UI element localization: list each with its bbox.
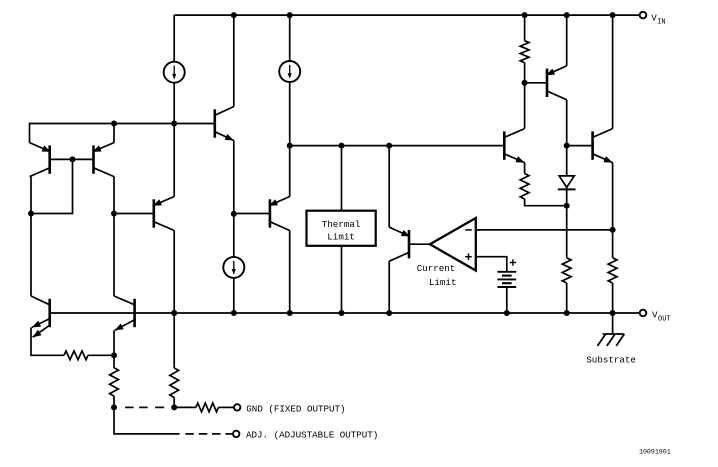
junction	[564, 203, 570, 209]
junction	[610, 12, 616, 18]
wire	[113, 396, 115, 407]
svg-text:Limit: Limit	[429, 277, 457, 288]
substrate symbol	[598, 334, 625, 346]
wire Q4 emitter	[173, 124, 175, 197]
wire Q4 collector	[173, 231, 175, 314]
wire dashed node	[125, 406, 164, 408]
battery reference V1	[497, 259, 516, 287]
wire	[341, 146, 343, 211]
junction	[564, 310, 570, 316]
thermal limit block	[307, 211, 376, 246]
transistor Q3 (PNP)	[92, 143, 114, 177]
wire	[524, 15, 526, 41]
transistor Q2 (PNP)	[30, 143, 51, 177]
wire	[173, 15, 175, 62]
junction	[610, 310, 616, 316]
wire Q8 emitter	[388, 146, 390, 228]
wire Q9 base	[525, 82, 547, 84]
transistor Q5 (PNP)	[269, 197, 290, 231]
junction	[171, 310, 177, 316]
svg-text:Current: Current	[417, 263, 456, 274]
wire	[566, 187, 568, 257]
terminal VIN	[640, 12, 647, 19]
junction	[504, 310, 510, 316]
wire	[612, 313, 614, 334]
terminal GND	[234, 404, 240, 410]
svg-text:10091901: 10091901	[639, 449, 671, 456]
svg-text:OUT: OUT	[658, 315, 671, 323]
wire Q1 collector	[233, 15, 235, 106]
junction	[111, 121, 117, 127]
wire mid rail	[290, 145, 505, 147]
junction	[231, 211, 237, 217]
wire Q8 collector	[388, 261, 390, 313]
label Substrate	[586, 354, 636, 365]
diode D1	[558, 176, 576, 190]
transistor Q10 (NPN)	[504, 129, 524, 163]
junction	[171, 404, 177, 410]
wire Q3 emitter	[113, 124, 115, 143]
wire base rail Q2-Q3	[50, 158, 94, 160]
wire	[506, 287, 508, 313]
wire	[233, 214, 235, 258]
transistor Q8 (PNP)	[389, 227, 410, 261]
svg-text:GND (FIXED OUTPUT): GND (FIXED OUTPUT)	[246, 404, 345, 415]
junction	[386, 143, 392, 149]
wire Q11 collector	[612, 15, 614, 129]
wire	[173, 82, 175, 123]
label V_IN	[651, 13, 665, 27]
svg-text:IN: IN	[657, 18, 665, 26]
wire Q7 collector	[113, 214, 115, 297]
svg-text:Substrate: Substrate	[586, 354, 636, 365]
wire	[341, 246, 343, 313]
resistor R3	[562, 258, 571, 283]
wire Q11 base	[567, 145, 593, 147]
wire non-inverting input	[476, 257, 507, 272]
label Current Limit	[417, 263, 457, 288]
wire	[218, 406, 234, 408]
label ADJ. (ADJUSTABLE OUTPUT)	[246, 429, 378, 440]
svg-text:Thermal: Thermal	[322, 219, 361, 230]
wire Q3 collector	[113, 177, 115, 214]
junction	[70, 156, 76, 162]
junction	[386, 310, 392, 316]
wire	[612, 283, 614, 313]
wire top V_IN rail	[174, 14, 640, 16]
transistor Q4 (PNP)	[153, 197, 175, 231]
resistor R7	[170, 368, 179, 398]
wire Q9 collector	[566, 100, 568, 146]
current source I2	[279, 61, 300, 82]
wire Q6 collector	[30, 214, 32, 297]
junction	[28, 211, 34, 217]
junction	[287, 310, 293, 316]
label V_OUT	[652, 309, 671, 323]
wire	[114, 407, 180, 434]
transistor Q9 (PNP)	[546, 66, 567, 100]
wire Q9 emitter	[566, 15, 568, 66]
wire Q2 collector	[30, 177, 32, 214]
resistor R5	[64, 351, 88, 360]
wire inverting input	[476, 229, 613, 231]
wire Q5 collector	[289, 231, 291, 314]
wire	[173, 398, 175, 408]
wire	[173, 313, 175, 368]
wire left emitter rail	[30, 124, 215, 143]
wire	[524, 63, 526, 83]
wire	[566, 146, 568, 176]
resistor R8	[196, 403, 219, 412]
wire base tie-down	[31, 159, 73, 213]
transistor Q7 (NPN)	[114, 296, 135, 330]
wire bottom V_OUT rail	[50, 312, 640, 314]
wire Q5 emitter	[289, 146, 291, 197]
wire Q6 emitter	[31, 327, 64, 355]
wire	[233, 278, 235, 314]
terminal ADJ	[233, 431, 239, 437]
junction	[564, 143, 570, 149]
wire	[566, 283, 568, 313]
wire	[289, 82, 291, 146]
junction	[171, 310, 177, 316]
resistor R2	[520, 174, 529, 200]
wire Q10 collector	[524, 83, 526, 129]
resistor R6	[110, 368, 119, 396]
wire Q11 emitter	[612, 163, 614, 258]
wire	[88, 354, 114, 356]
wire Q8 base	[409, 243, 430, 245]
current source I3	[223, 257, 244, 278]
label GND (FIXED OUTPUT)	[246, 404, 345, 415]
junction	[564, 12, 570, 18]
resistor R1	[520, 41, 529, 63]
current source I1	[164, 62, 185, 83]
junction	[231, 310, 237, 316]
wire	[174, 406, 196, 408]
junction	[111, 352, 117, 358]
svg-text:ADJ. (ADJUSTABLE OUTPUT): ADJ. (ADJUSTABLE OUTPUT)	[246, 429, 378, 440]
wire Q1 emitter	[233, 141, 235, 214]
wire	[113, 355, 115, 367]
junction	[111, 404, 117, 410]
wire dashed node	[185, 433, 232, 435]
wire Q10 emitter	[524, 163, 526, 174]
transistor Q6 (NPN, dual emitter)	[31, 296, 50, 337]
transistor Q1 (NPN)	[215, 107, 234, 141]
junction	[231, 12, 237, 18]
junction	[287, 12, 293, 18]
junction	[171, 121, 177, 127]
junction	[610, 227, 616, 233]
junction	[339, 310, 345, 316]
label figure number	[639, 449, 671, 456]
transistor Q11 (NPN)	[593, 129, 613, 163]
junction	[339, 143, 345, 149]
wire	[289, 15, 291, 61]
op-amp U1	[430, 218, 476, 271]
wire	[114, 213, 154, 215]
junction node A	[522, 80, 528, 86]
wire	[525, 199, 567, 206]
wire	[234, 213, 270, 215]
svg-text:Limit: Limit	[327, 231, 355, 242]
resistor R4	[608, 258, 617, 283]
terminal VOUT	[640, 310, 647, 317]
junction	[522, 12, 528, 18]
junction	[111, 211, 117, 217]
wire Q7 emitter	[113, 330, 115, 355]
junction	[287, 143, 293, 149]
